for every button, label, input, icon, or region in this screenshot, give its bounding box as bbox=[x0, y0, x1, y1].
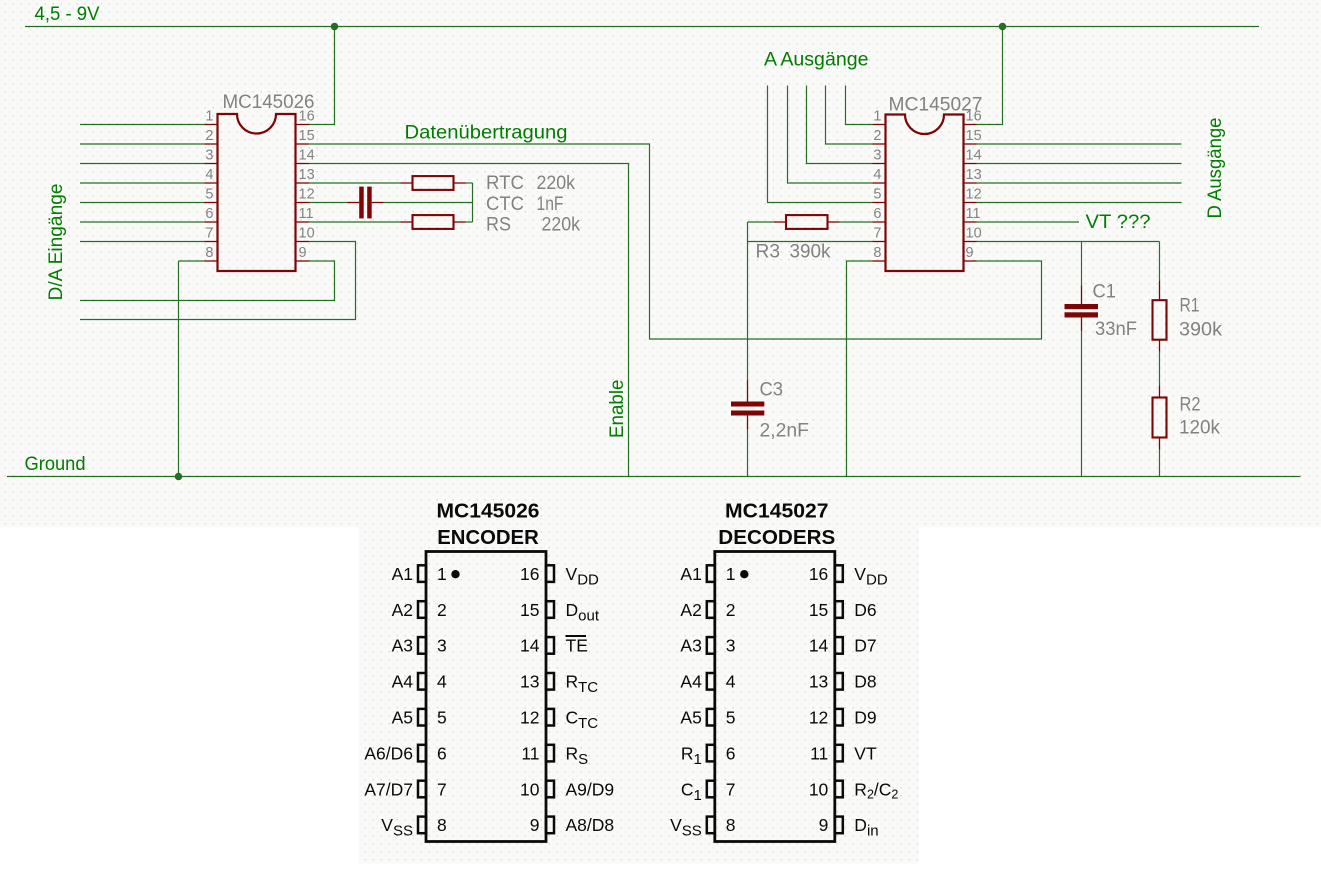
svg-text:15: 15 bbox=[520, 600, 539, 620]
svg-text:A3: A3 bbox=[392, 636, 413, 656]
svg-text:1nF: 1nF bbox=[537, 194, 564, 215]
resistor R1 body bbox=[1153, 300, 1167, 340]
svg-text:220k: 220k bbox=[542, 215, 581, 236]
svg-text:4: 4 bbox=[205, 167, 213, 183]
capacitor CTC pins bbox=[348, 202, 360, 204]
svg-text:7: 7 bbox=[205, 225, 213, 241]
svg-text:15: 15 bbox=[809, 600, 828, 620]
svg-text:13: 13 bbox=[299, 167, 315, 183]
svg-text:2: 2 bbox=[205, 128, 213, 144]
wire: U1 pin12 to CTC bbox=[309, 202, 348, 204]
wire: rail down to U1 pin16 bbox=[309, 27, 335, 125]
wires: D/A Eingaenge inputs to U1 pins 1-7 bbox=[80, 125, 205, 242]
wire: R3 to U2 pin6 bbox=[840, 221, 873, 223]
svg-text:9: 9 bbox=[819, 815, 829, 835]
svg-text:A6/D6: A6/D6 bbox=[364, 743, 413, 763]
net Ground wire bbox=[7, 476, 1301, 478]
svg-text:10: 10 bbox=[520, 779, 540, 799]
svg-text:TE: TE bbox=[566, 636, 588, 656]
pinout MC145026 TE overline bbox=[566, 635, 587, 637]
wire: U1 pin 8 to ground vertical bbox=[179, 260, 205, 262]
wire: R3 left to vertical bbox=[748, 221, 775, 223]
capacitor CTC plates bbox=[359, 187, 364, 219]
svg-text:2,2nF: 2,2nF bbox=[760, 421, 810, 442]
pinout MC145026 pin 1 index dot bbox=[451, 570, 459, 578]
svg-text:RS: RS bbox=[486, 215, 511, 236]
svg-text:13: 13 bbox=[966, 167, 982, 183]
wire: C3 to ground bbox=[747, 430, 749, 477]
svg-text:1: 1 bbox=[205, 108, 213, 124]
resistor R2 pins bbox=[1159, 386, 1161, 398]
svg-text:11: 11 bbox=[521, 743, 539, 763]
resistor R3 pins bbox=[774, 221, 786, 223]
svg-text:5: 5 bbox=[205, 186, 213, 202]
svg-text:5: 5 bbox=[437, 708, 447, 728]
pinout MC145026 left pin labels bbox=[364, 564, 413, 840]
svg-text:12: 12 bbox=[299, 186, 315, 202]
pinout MC145027 package body bbox=[715, 552, 835, 842]
IC U1 MC145026 body bbox=[218, 114, 296, 271]
svg-text:9: 9 bbox=[530, 815, 540, 835]
svg-text:A3: A3 bbox=[680, 636, 701, 656]
svg-text:16: 16 bbox=[809, 564, 828, 584]
IC U2 left pin stubs 1-8 bbox=[873, 125, 886, 262]
pinout MC145026 right pin stubs bbox=[546, 565, 554, 833]
svg-text:A1: A1 bbox=[680, 564, 701, 584]
svg-text:D6: D6 bbox=[854, 600, 876, 620]
svg-text:12: 12 bbox=[809, 708, 828, 728]
svg-text:A Ausgänge: A Ausgänge bbox=[764, 49, 869, 71]
svg-text:120k: 120k bbox=[1179, 418, 1220, 439]
svg-text:4,5 - 9V: 4,5 - 9V bbox=[35, 3, 100, 25]
svg-text:8: 8 bbox=[726, 815, 736, 835]
svg-text:C1: C1 bbox=[1093, 282, 1117, 303]
wire: U2 pin8 to ground bbox=[847, 261, 873, 477]
svg-text:1: 1 bbox=[437, 564, 447, 584]
svg-text:Datenübertragung: Datenübertragung bbox=[405, 122, 568, 144]
svg-text:7: 7 bbox=[873, 225, 881, 241]
svg-text:R2: R2 bbox=[1180, 395, 1201, 416]
svg-text:390k: 390k bbox=[790, 242, 831, 263]
svg-text:Enable: Enable bbox=[606, 380, 628, 439]
svg-text:CTC: CTC bbox=[486, 194, 524, 215]
svg-text:2: 2 bbox=[873, 128, 881, 144]
wire: C1 to ground bbox=[1081, 331, 1083, 477]
wire: branch down to C1 bbox=[1081, 242, 1083, 286]
svg-text:15: 15 bbox=[299, 128, 315, 144]
IC U2 MC145027 body bbox=[886, 115, 964, 272]
pinout MC145026 package body bbox=[426, 552, 546, 842]
wire: U1 pin 9 loop to left inputs bbox=[80, 261, 335, 301]
pinout MC145026 right pin numbers 16-9 bbox=[520, 564, 540, 835]
junction: U1 pin8 vertical to ground bbox=[175, 473, 183, 481]
net Enable: U1 pin14 to ground bbox=[309, 164, 629, 477]
svg-text:3: 3 bbox=[437, 636, 447, 656]
svg-text:A9/D9: A9/D9 bbox=[566, 779, 615, 799]
svg-text:VT ???: VT ??? bbox=[1086, 211, 1151, 233]
resistor RTC pins bbox=[401, 182, 413, 184]
svg-text:A2: A2 bbox=[392, 600, 413, 620]
svg-text:14: 14 bbox=[809, 636, 829, 656]
wires: A Ausgaenge outputs to U2 pins 1-5 bbox=[768, 86, 873, 203]
IC U1 right pin numbers 16-9 bbox=[299, 108, 315, 260]
IC U1 right pin stubs 9-16 bbox=[296, 125, 310, 262]
svg-text:R3: R3 bbox=[756, 242, 781, 263]
resistor R1 pins bbox=[1159, 281, 1161, 300]
pinout MC145026 left pin numbers 1-8 bbox=[437, 564, 447, 835]
wire: R2 to ground bbox=[1159, 450, 1161, 477]
net Datenuebertragung: U1 pin15 to U2 pin9 bbox=[309, 144, 1042, 339]
svg-text:RTC: RTC bbox=[486, 173, 524, 194]
svg-text:A7/D7: A7/D7 bbox=[364, 779, 413, 799]
svg-text:D Ausgänge: D Ausgänge bbox=[1204, 118, 1226, 219]
wires: D Ausgaenge outputs U2 pins 15-12 bbox=[977, 144, 1182, 203]
IC U2 left pin numbers 1-8 bbox=[873, 108, 881, 260]
wire: U2 pin7 to vertical bbox=[748, 241, 873, 243]
svg-text:MC145027: MC145027 bbox=[725, 501, 829, 523]
wire: vertical U1 pin8 to ground bbox=[178, 261, 180, 477]
IC U1 left pin stubs 1-8 bbox=[205, 125, 218, 262]
resistor R3 body bbox=[786, 215, 828, 229]
junction: rail to U1 pin16 bbox=[331, 23, 339, 31]
wire: U1 pin11 to RS bbox=[309, 221, 401, 223]
svg-text:9: 9 bbox=[966, 245, 974, 261]
svg-text:DECODERS: DECODERS bbox=[718, 527, 835, 549]
capacitor C1 plates bbox=[1065, 304, 1099, 309]
svg-text:13: 13 bbox=[809, 672, 828, 692]
resistor RS pins bbox=[401, 221, 413, 223]
svg-text:12: 12 bbox=[520, 708, 539, 728]
svg-text:C3: C3 bbox=[760, 380, 784, 401]
IC U2 right pin numbers 16-9 bbox=[966, 108, 982, 260]
svg-text:11: 11 bbox=[299, 206, 314, 222]
svg-text:6: 6 bbox=[205, 206, 213, 222]
svg-text:A5: A5 bbox=[680, 708, 701, 728]
svg-text:D8: D8 bbox=[854, 672, 876, 692]
pinout MC145026 right pin labels bbox=[566, 564, 615, 835]
wire: down into R1 bbox=[1159, 242, 1161, 282]
wire: U1 pin13 to RTC bbox=[309, 182, 401, 184]
svg-text:7: 7 bbox=[437, 779, 447, 799]
pinout MC145027 right pin numbers 16-9 bbox=[809, 564, 829, 835]
net 4,5-9V power rail wire bbox=[25, 26, 1259, 28]
resistor RS body bbox=[413, 215, 454, 229]
svg-text:10: 10 bbox=[299, 225, 315, 241]
pinout MC145027 left pin stubs bbox=[707, 565, 715, 833]
svg-text:Ground: Ground bbox=[25, 453, 86, 475]
svg-text:4: 4 bbox=[437, 672, 447, 692]
svg-text:7: 7 bbox=[726, 779, 736, 799]
svg-text:15: 15 bbox=[966, 128, 982, 144]
svg-text:D9: D9 bbox=[854, 708, 876, 728]
svg-text:11: 11 bbox=[810, 743, 828, 763]
pinout MC145026 left pin stubs bbox=[418, 565, 426, 833]
svg-text:MC145026: MC145026 bbox=[437, 501, 540, 523]
wire: CTC to right vertical bbox=[384, 202, 473, 204]
svg-text:ENCODER: ENCODER bbox=[437, 527, 539, 549]
wire: U2 pin10 to R1 top bbox=[977, 241, 1160, 243]
svg-text:8: 8 bbox=[437, 815, 447, 835]
svg-text:16: 16 bbox=[966, 108, 982, 124]
wire: rail down to U2 pin16 bbox=[977, 27, 1003, 125]
pinout MC145027 right pin labels bbox=[854, 564, 898, 840]
capacitor C3 pins bbox=[747, 381, 749, 402]
IC U1 left pin numbers 1-8 bbox=[205, 108, 213, 260]
svg-text:A5: A5 bbox=[392, 708, 413, 728]
svg-text:16: 16 bbox=[299, 108, 315, 124]
svg-text:1: 1 bbox=[726, 564, 736, 584]
svg-text:VT: VT bbox=[854, 743, 877, 763]
svg-text:A1: A1 bbox=[392, 564, 413, 584]
svg-text:390k: 390k bbox=[1179, 320, 1223, 341]
resistor R2 body bbox=[1153, 398, 1167, 438]
wire: vertical R3/pin7 to C3 bbox=[747, 222, 749, 381]
svg-text:8: 8 bbox=[205, 245, 213, 261]
svg-text:6: 6 bbox=[873, 206, 881, 222]
wire: R1 to R2 bbox=[1159, 352, 1161, 386]
svg-text:R1: R1 bbox=[1180, 296, 1200, 317]
svg-text:D7: D7 bbox=[854, 636, 876, 656]
svg-text:A2: A2 bbox=[680, 600, 701, 620]
svg-text:14: 14 bbox=[299, 147, 315, 163]
svg-text:4: 4 bbox=[726, 672, 736, 692]
capacitor C3 plates bbox=[731, 402, 764, 407]
svg-text:14: 14 bbox=[966, 147, 982, 163]
svg-text:4: 4 bbox=[873, 167, 881, 183]
pinout MC145027 left pin labels bbox=[670, 564, 702, 840]
svg-text:11: 11 bbox=[966, 206, 981, 222]
svg-text:2: 2 bbox=[437, 600, 447, 620]
svg-text:3: 3 bbox=[205, 147, 213, 163]
svg-text:14: 14 bbox=[520, 636, 540, 656]
svg-text:3: 3 bbox=[873, 147, 881, 163]
svg-text:1: 1 bbox=[873, 108, 881, 124]
svg-text:8: 8 bbox=[873, 245, 881, 261]
svg-text:13: 13 bbox=[520, 672, 539, 692]
wire: vertical joining RTC CTC RS bbox=[472, 183, 474, 222]
svg-text:33nF: 33nF bbox=[1095, 319, 1137, 340]
pinout MC145027 pin 1 index dot bbox=[740, 570, 748, 578]
svg-text:10: 10 bbox=[966, 225, 982, 241]
pinout MC145027 left pin numbers 1-8 bbox=[726, 564, 736, 835]
svg-text:A8/D8: A8/D8 bbox=[566, 815, 615, 835]
pinout MC145027 right pin stubs bbox=[835, 565, 843, 833]
svg-text:220k: 220k bbox=[537, 173, 576, 194]
IC U2 right pin stubs 9-16 bbox=[964, 125, 977, 262]
svg-text:12: 12 bbox=[966, 186, 982, 202]
svg-text:3: 3 bbox=[726, 636, 736, 656]
svg-text:6: 6 bbox=[726, 743, 736, 763]
svg-text:16: 16 bbox=[520, 564, 539, 584]
resistor RTC body bbox=[413, 176, 454, 190]
svg-text:D/A Eingänge: D/A Eingänge bbox=[45, 184, 67, 301]
svg-text:6: 6 bbox=[437, 743, 447, 763]
wire: RS to right vertical bbox=[466, 221, 473, 223]
svg-text:9: 9 bbox=[299, 245, 307, 261]
wire: U2 pin11 VT output bbox=[977, 221, 1080, 223]
junction: rail to U2 pin16 bbox=[999, 23, 1007, 31]
capacitor C1 pins bbox=[1081, 286, 1083, 305]
svg-text:A4: A4 bbox=[392, 672, 414, 692]
svg-text:2: 2 bbox=[726, 600, 736, 620]
wire: RTC to right vertical bbox=[466, 182, 473, 184]
svg-text:10: 10 bbox=[809, 779, 829, 799]
svg-text:5: 5 bbox=[873, 186, 881, 202]
svg-text:5: 5 bbox=[726, 708, 736, 728]
svg-text:A4: A4 bbox=[680, 672, 702, 692]
wire: U1 pin 10 loop to left inputs bbox=[80, 242, 356, 320]
